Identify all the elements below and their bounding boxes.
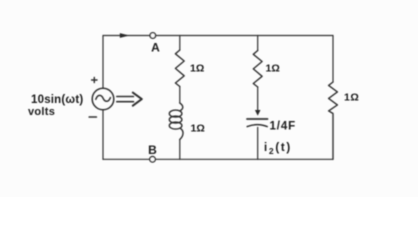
- svg-text:A: A: [151, 41, 160, 55]
- svg-text:1Ω: 1Ω: [344, 92, 359, 104]
- svg-text:1Ω: 1Ω: [190, 63, 204, 75]
- svg-text:B: B: [148, 143, 157, 157]
- svg-text:1Ω: 1Ω: [191, 123, 205, 135]
- svg-text:volts: volts: [28, 106, 55, 118]
- svg-text:1Ω: 1Ω: [266, 63, 280, 75]
- svg-text:10sin(ωt): 10sin(ωt): [31, 94, 83, 106]
- svg-text:1/4F: 1/4F: [270, 121, 297, 133]
- svg-text:i2(t): i2(t): [264, 142, 292, 156]
